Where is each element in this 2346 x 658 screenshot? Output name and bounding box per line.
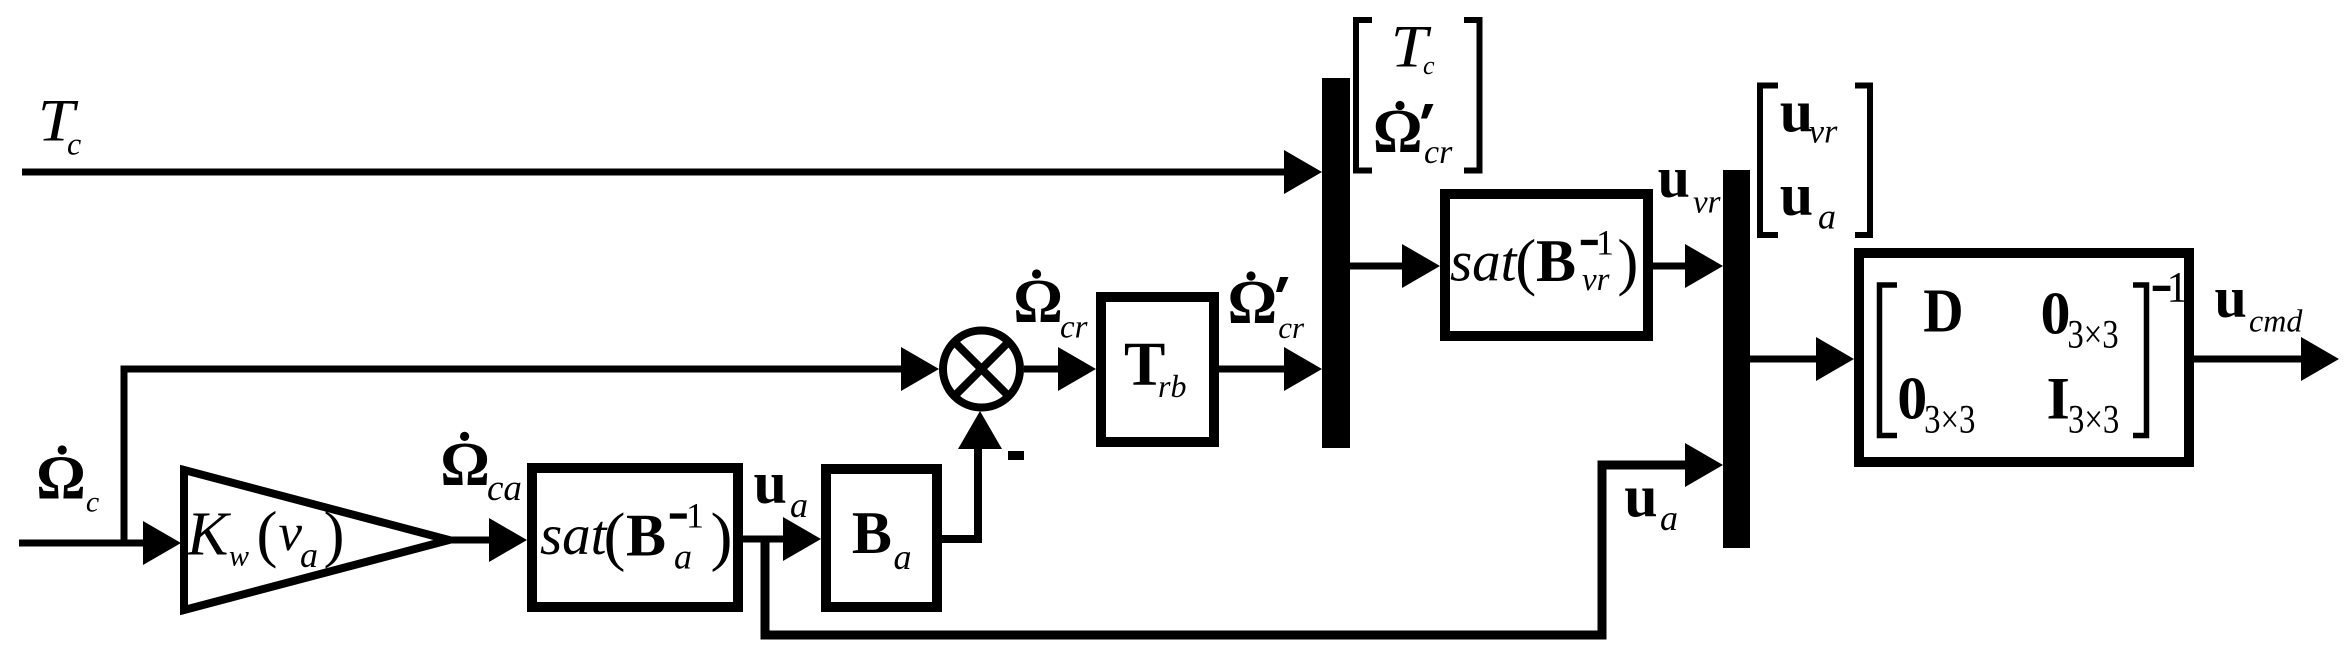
- svg-text:a: a: [790, 485, 808, 525]
- svg-text:Ω: Ω: [36, 445, 86, 513]
- node Omega-dot-c input label: [36, 445, 99, 519]
- arrow into Trb: [1058, 347, 1096, 391]
- block sat(Bvr^-1): [1445, 194, 1648, 336]
- wire ua feedback bottom: [765, 465, 1689, 635]
- svg-text:vr: vr: [1582, 262, 1610, 298]
- multiplier circle: [943, 331, 1020, 408]
- svg-text:0: 0: [2041, 281, 2071, 347]
- svg-text:ca: ca: [487, 468, 522, 509]
- svg-text:w: w: [229, 540, 249, 573]
- svg-text:1: 1: [2167, 265, 2189, 312]
- wire mux2 to matrix block: [1750, 356, 1820, 363]
- svg-text:a: a: [300, 535, 318, 575]
- arrow up into multiplier: [958, 411, 1002, 449]
- wire branch riser to multiplier: [124, 369, 905, 546]
- svg-text:c: c: [67, 126, 81, 162]
- label ucmd: [2215, 265, 2304, 339]
- arrow into demux1 bottom: [1284, 347, 1322, 391]
- svg-text:B: B: [1536, 228, 1576, 294]
- wire Omega-dot-c input: [19, 540, 147, 547]
- wire mux1 to sat(Bvr): [1350, 263, 1406, 270]
- arrow into mux2 bottom: [1685, 443, 1723, 487]
- label Omega-dot-ca: [440, 431, 522, 509]
- svg-text:u: u: [1780, 162, 1813, 228]
- svg-text:): ): [1617, 227, 1638, 297]
- svg-text:cr: cr: [1278, 310, 1305, 345]
- svg-text:a: a: [1660, 498, 1678, 538]
- svg-text:sat: sat: [540, 504, 608, 567]
- label Omega-dot-cr: [1013, 268, 1087, 346]
- arrow into sat(Bvr): [1402, 244, 1440, 288]
- svg-text:cmd: cmd: [2249, 303, 2303, 339]
- arrow output ucmd: [2301, 337, 2339, 381]
- arrow into matrix block: [1816, 337, 1854, 381]
- svg-text:3×3: 3×3: [2068, 397, 2119, 442]
- svg-text:rb: rb: [1158, 368, 1186, 404]
- arrow into mux2 top: [1685, 244, 1723, 288]
- arrow into Ba: [783, 517, 821, 561]
- block Ba: [826, 469, 937, 607]
- wire sat(Bvr) to mux2: [1653, 263, 1689, 270]
- svg-text:vr: vr: [1693, 185, 1721, 221]
- block sat(Ba^-1): [532, 468, 738, 607]
- label Trb: [1124, 331, 1186, 404]
- svg-text:(: (: [1515, 227, 1536, 297]
- block Trb: [1101, 297, 1214, 442]
- label ua after sat(Ba): [754, 450, 809, 525]
- wire matrix block output: [2194, 356, 2305, 363]
- wire Tc to demux1: [22, 169, 1288, 176]
- svg-text:): ): [324, 499, 345, 569]
- label matrix contents: [1880, 265, 2189, 442]
- label ua bottom: [1624, 464, 1678, 539]
- svg-text:K: K: [186, 501, 232, 569]
- mux bar 2: [1723, 170, 1750, 548]
- svg-text:0: 0: [1897, 366, 1927, 432]
- bracket vector [Tc; Omega'cr] above mux1: [1356, 13, 1480, 171]
- svg-text:B: B: [626, 502, 666, 568]
- label sat(Ba^-1): [540, 496, 732, 577]
- svg-text:3×3: 3×3: [1924, 397, 1975, 442]
- label Omega-dot-cr-prime: [1228, 269, 1306, 345]
- svg-text:B: B: [852, 500, 892, 566]
- svg-text:(: (: [604, 500, 626, 573]
- svg-text:u: u: [754, 450, 787, 516]
- svg-text:D: D: [1923, 276, 1963, 345]
- svg-text:u: u: [1624, 464, 1657, 530]
- arrow into demux1 top: [1284, 150, 1322, 194]
- label Ba: [852, 500, 912, 577]
- svg-text:u: u: [2215, 265, 2247, 330]
- svg-text:(: (: [257, 499, 278, 569]
- mux bar 1: [1322, 78, 1350, 448]
- wire multiplier to Trb: [1024, 366, 1062, 373]
- svg-text:3×3: 3×3: [2067, 312, 2118, 357]
- svg-text:1: 1: [686, 496, 704, 536]
- svg-text:a: a: [674, 537, 692, 577]
- block inverse matrix: [1859, 253, 2189, 462]
- arrow into gain triangle: [143, 521, 181, 565]
- svg-text:sat: sat: [1450, 231, 1518, 294]
- svg-text:cr: cr: [1060, 310, 1088, 346]
- svg-text:): ): [711, 500, 733, 573]
- wire sat(Ba) to Ba: [743, 536, 787, 543]
- minus sign at multiplier: [1008, 451, 1024, 460]
- bracket vector [uvr; ua] above mux2: [1760, 79, 1870, 237]
- svg-text:cr: cr: [1424, 134, 1453, 171]
- label sat(Bvr^-1): [1450, 222, 1638, 298]
- arrow into multiplier left: [901, 347, 939, 391]
- label uvr: [1658, 145, 1721, 221]
- svg-text:a: a: [1818, 197, 1836, 237]
- node Tc input label: [38, 87, 81, 161]
- wire Trb to demux1: [1219, 366, 1288, 373]
- svg-text:I: I: [2047, 366, 2070, 432]
- arrow into sat(Ba): [489, 518, 527, 562]
- wire triangle apex to sat(Ba): [449, 537, 493, 544]
- svg-text:1: 1: [1596, 222, 1614, 262]
- svg-text:vr: vr: [1809, 114, 1838, 151]
- svg-text:u: u: [1658, 145, 1690, 210]
- wire Ba up to multiplier: [942, 449, 978, 539]
- svg-text:v: v: [279, 504, 303, 562]
- svg-text:a: a: [894, 537, 912, 577]
- svg-text:c: c: [86, 486, 99, 519]
- label Kw(va): [186, 499, 344, 575]
- svg-text:c: c: [1423, 51, 1435, 80]
- svg-text:Ω: Ω: [440, 431, 490, 499]
- gain triangle Kw(va): [184, 470, 449, 610]
